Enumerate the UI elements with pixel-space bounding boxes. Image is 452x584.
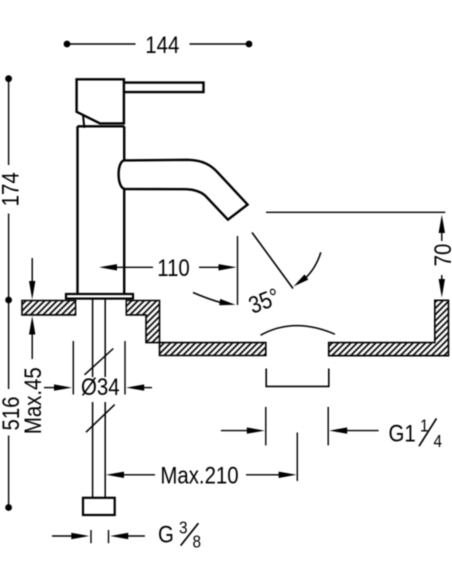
svg-text:Max.210: Max.210 (160, 462, 238, 489)
svg-text:Max.45: Max.45 (19, 367, 46, 434)
svg-text:G: G (158, 521, 174, 548)
svg-text:174: 174 (0, 172, 24, 206)
svg-text:70: 70 (429, 244, 452, 267)
svg-text:G1: G1 (389, 420, 416, 447)
svg-text:8: 8 (193, 531, 202, 551)
svg-text:110: 110 (157, 254, 190, 281)
svg-text:144: 144 (145, 31, 179, 58)
svg-text:Ø34: Ø34 (81, 373, 120, 400)
svg-text:3: 3 (179, 517, 188, 537)
svg-text:4: 4 (434, 431, 443, 451)
